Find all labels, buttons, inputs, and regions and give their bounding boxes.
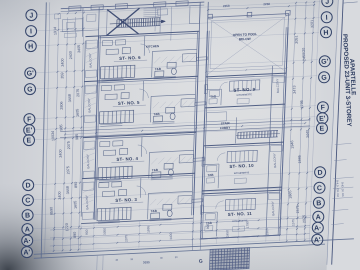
svg-text:3448: 3448 [66,186,70,194]
svg-text:E: E [26,137,31,144]
svg-text:1865: 1865 [265,228,269,235]
svg-text:T&B: T&B [152,168,159,172]
svg-text:8590: 8590 [49,207,53,215]
svg-text:1575: 1575 [291,219,295,226]
svg-text:BALCONY: BALCONY [271,201,276,216]
svg-text:3201: 3201 [310,20,314,28]
svg-text:1575: 1575 [296,205,300,213]
svg-text:1605: 1605 [73,201,77,209]
svg-text:C: C [25,197,30,204]
svg-text:1720: 1720 [65,223,69,231]
svg-text:3473: 3473 [292,85,296,93]
svg-text:KITCHEN: KITCHEN [146,44,160,49]
svg-text:T&B: T&B [151,209,158,213]
svg-text:2450: 2450 [225,230,229,237]
svg-text:E: E [319,126,324,133]
svg-text:B: B [316,200,321,207]
svg-text:A·: A· [314,225,322,232]
svg-text:1865: 1865 [146,225,150,232]
svg-text:3050: 3050 [103,228,107,235]
svg-text:2258: 2258 [223,4,230,8]
svg-text:J: J [29,12,33,19]
svg-text:3030: 3030 [143,260,150,264]
svg-text:3405: 3405 [77,45,81,53]
svg-text:G': G' [321,59,329,66]
svg-text:1865: 1865 [288,190,292,198]
svg-text:890: 890 [74,182,78,188]
svg-text:E': E' [319,116,326,123]
svg-text:1795: 1795 [300,100,304,108]
svg-text:H: H [323,30,328,37]
svg-text:1946: 1946 [290,140,294,148]
svg-text:3400: 3400 [61,58,65,66]
svg-text:SHLD. OR. DA: SHLD. OR. DA [335,180,340,198]
svg-text:I: I [30,28,32,35]
svg-text:985: 985 [59,124,63,130]
svg-text:G: G [27,86,33,93]
svg-text:A·: A· [23,238,31,245]
svg-text:ST- NO. 3: ST- NO. 3 [115,197,137,203]
svg-text:BALCONY: BALCONY [275,79,280,94]
svg-text:1865: 1865 [298,155,302,163]
svg-text:D: D [317,170,322,177]
svg-text:T&B: T&B [155,67,162,71]
svg-text:A': A' [23,249,30,256]
svg-text:1914: 1914 [53,27,57,35]
svg-text:2450/20: 2450/20 [302,48,307,62]
svg-text:E': E' [26,127,33,134]
svg-text:G: G [199,259,203,265]
svg-text:2075: 2075 [76,89,80,97]
svg-text:ST- NO. 9: ST- NO. 9 [233,87,255,93]
svg-text:TAB: TAB [207,173,214,177]
svg-text:T&B: T&B [153,112,160,116]
svg-text:I: I [325,15,327,22]
svg-text:2400: 2400 [69,51,73,59]
svg-text:ST- NO. 6: ST- NO. 6 [119,55,141,61]
svg-text:900: 900 [85,229,89,235]
svg-text:2075: 2075 [124,234,128,241]
svg-text:BALCONY: BALCONY [272,153,277,168]
svg-text:G: G [321,75,327,82]
svg-text:3400: 3400 [169,232,173,239]
svg-text:3448: 3448 [68,94,72,102]
svg-text:3440: 3440 [306,130,310,138]
svg-text:890: 890 [206,224,210,230]
svg-text:3400: 3400 [59,149,63,157]
svg-text:359: 359 [60,72,64,78]
svg-text:2075: 2075 [67,141,71,149]
svg-text:C: C [317,185,322,192]
svg-text:2075: 2075 [66,166,70,174]
svg-text:D: D [25,182,30,189]
svg-text:J: J [325,0,329,6]
svg-text:B: B [25,212,30,219]
svg-text:1605: 1605 [75,109,79,117]
svg-text:10034: 10034 [51,131,55,141]
svg-text:A': A' [314,237,321,244]
svg-text:A: A [316,214,321,221]
svg-text:3051: 3051 [294,35,298,43]
svg-text:3400: 3400 [58,191,62,199]
svg-text:2258: 2258 [263,2,270,6]
svg-text:2075: 2075 [302,215,306,223]
svg-text:BELOW: BELOW [239,37,251,42]
svg-text:2806: 2806 [60,101,64,109]
svg-text:ST- NO. 4: ST- NO. 4 [116,156,138,162]
svg-text:SHD. 28. DA: SHD. 28. DA [340,182,345,197]
svg-text:ST- NO. 5: ST- NO. 5 [118,100,140,106]
svg-text:1795: 1795 [245,221,249,228]
svg-text:G': G' [27,70,35,77]
svg-text:A: A [25,226,30,233]
svg-text:LOBBY: LOBBY [220,126,231,130]
svg-text:H: H [28,43,33,50]
